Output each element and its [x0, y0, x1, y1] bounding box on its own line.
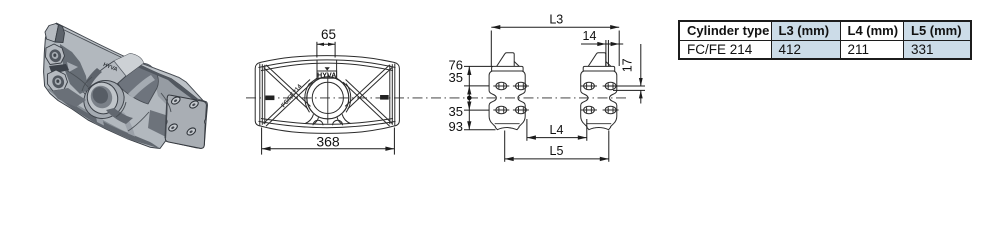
svg-text:14: 14 [583, 29, 597, 43]
svg-text:35: 35 [449, 70, 463, 85]
svg-text:65: 65 [321, 27, 336, 42]
svg-text:93: 93 [449, 119, 463, 134]
svg-text:L4: L4 [550, 123, 564, 137]
svg-text:L5: L5 [550, 144, 564, 158]
svg-text:HYVA: HYVA [317, 72, 336, 79]
svg-text:368: 368 [316, 134, 340, 150]
svg-text:L3: L3 [549, 13, 563, 27]
svg-text:35: 35 [449, 104, 463, 119]
svg-text:17: 17 [621, 58, 635, 72]
